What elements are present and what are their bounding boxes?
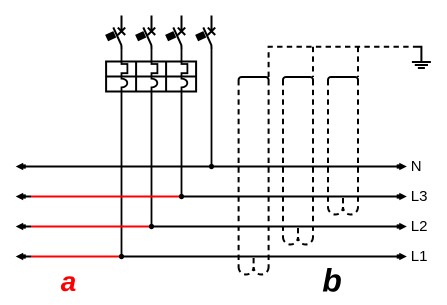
svg-text:N: N: [411, 158, 422, 175]
svg-text:b: b: [322, 262, 342, 298]
svg-text:L3: L3: [411, 188, 428, 205]
svg-text:a: a: [61, 266, 77, 297]
svg-text:L1: L1: [411, 248, 428, 265]
svg-text:L2: L2: [411, 218, 428, 235]
